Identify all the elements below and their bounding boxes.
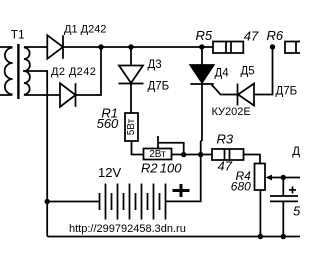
wire D3 to R1: [130, 84, 132, 114]
capacitor C1: [270, 196, 298, 201]
svg-text:Д5: Д5: [241, 66, 255, 78]
wire tap jumper: [158, 143, 184, 155]
junction dot thyristor anode: [199, 44, 204, 49]
wire D2 cathode up to top rail: [76, 47, 102, 95]
svg-text:R5: R5: [196, 28, 213, 43]
wire bottom rail: [47, 236, 300, 238]
diode D2: [60, 83, 76, 107]
R4 wiper arrow: [266, 175, 301, 181]
junction dot node A: [98, 44, 103, 49]
thyristor D4: [190, 65, 214, 84]
wire R2 tap stub: [157, 136, 159, 149]
svg-text:47: 47: [244, 29, 259, 44]
svg-text:КУ202Е: КУ202Е: [212, 106, 251, 118]
svg-text:R6: R6: [267, 28, 284, 43]
svg-text:50: 50: [293, 203, 300, 218]
junction dot D3 branch: [128, 44, 133, 49]
resistor R6: [285, 42, 303, 54]
svg-text:Д4: Д4: [215, 67, 230, 79]
diode D5: [238, 84, 255, 106]
wire R2 output: [172, 154, 213, 156]
wire anode to thyristor: [201, 47, 203, 65]
junction dot wiper: [281, 175, 286, 180]
junction dot R6 node: [270, 44, 275, 49]
svg-text:Д7Б: Д7Б: [276, 85, 298, 97]
wire top rail: [63, 46, 213, 48]
svg-text:Д6: Д6: [292, 146, 300, 158]
svg-text:Д2 Д242: Д2 Д242: [51, 66, 96, 78]
svg-text:560: 560: [97, 116, 119, 131]
wire D5 anode to R6 node: [254, 47, 273, 95]
svg-text:Д3: Д3: [148, 59, 162, 71]
wire R4 to rail: [259, 190, 261, 237]
wire R3 to R4: [244, 155, 261, 164]
svg-text:100: 100: [160, 161, 182, 176]
svg-text:47: 47: [218, 158, 233, 173]
junction dot tap: [181, 152, 186, 157]
junction dot thyristor cathode node: [198, 152, 203, 157]
resistor R1: [125, 113, 138, 141]
diode D1: [47, 35, 63, 59]
svg-text:R2: R2: [141, 161, 158, 176]
svg-text:R3: R3: [217, 132, 234, 147]
wire wiper to capacitor: [282, 178, 284, 197]
wire secondary bottom lead: [24, 94, 60, 96]
wire thyristor gate: [212, 85, 238, 95]
wire capacitor to rail: [282, 201, 284, 236]
wire battery negative: [47, 201, 99, 203]
svg-text:Д1 Д242: Д1 Д242: [64, 24, 106, 36]
svg-text:5Вт: 5Вт: [126, 118, 137, 135]
svg-text:http://299792458.3dn.ru: http://299792458.3dn.ru: [69, 223, 186, 235]
wire R1 to R2: [132, 141, 144, 155]
resistor R5: [213, 42, 243, 54]
svg-text:680: 680: [231, 179, 251, 193]
svg-text:Д7Б: Д7Б: [148, 81, 170, 93]
svg-text:2Вт: 2Вт: [149, 149, 166, 160]
junction dot battery minus: [45, 199, 50, 204]
junction dot capacitor: [281, 234, 286, 239]
diode D3: [119, 66, 144, 84]
battery polarity plus: [173, 184, 190, 197]
resistor R2: [144, 149, 172, 161]
wire D3 branch: [130, 47, 132, 66]
potentiometer R4: [255, 164, 266, 191]
wire center tap down left rail: [23, 71, 47, 237]
wire cathode column to battery plus: [166, 84, 203, 201]
wire secondary top lead: [24, 46, 47, 48]
junction dot R4 bottom: [258, 234, 263, 239]
transformer T1: [0, 44, 30, 99]
capacitor polarity plus: [289, 186, 296, 193]
svg-text:12V: 12V: [98, 165, 121, 180]
svg-text:Т1: Т1: [11, 28, 25, 42]
resistor R3: [212, 149, 244, 160]
battery GB1 plates: [100, 184, 166, 220]
